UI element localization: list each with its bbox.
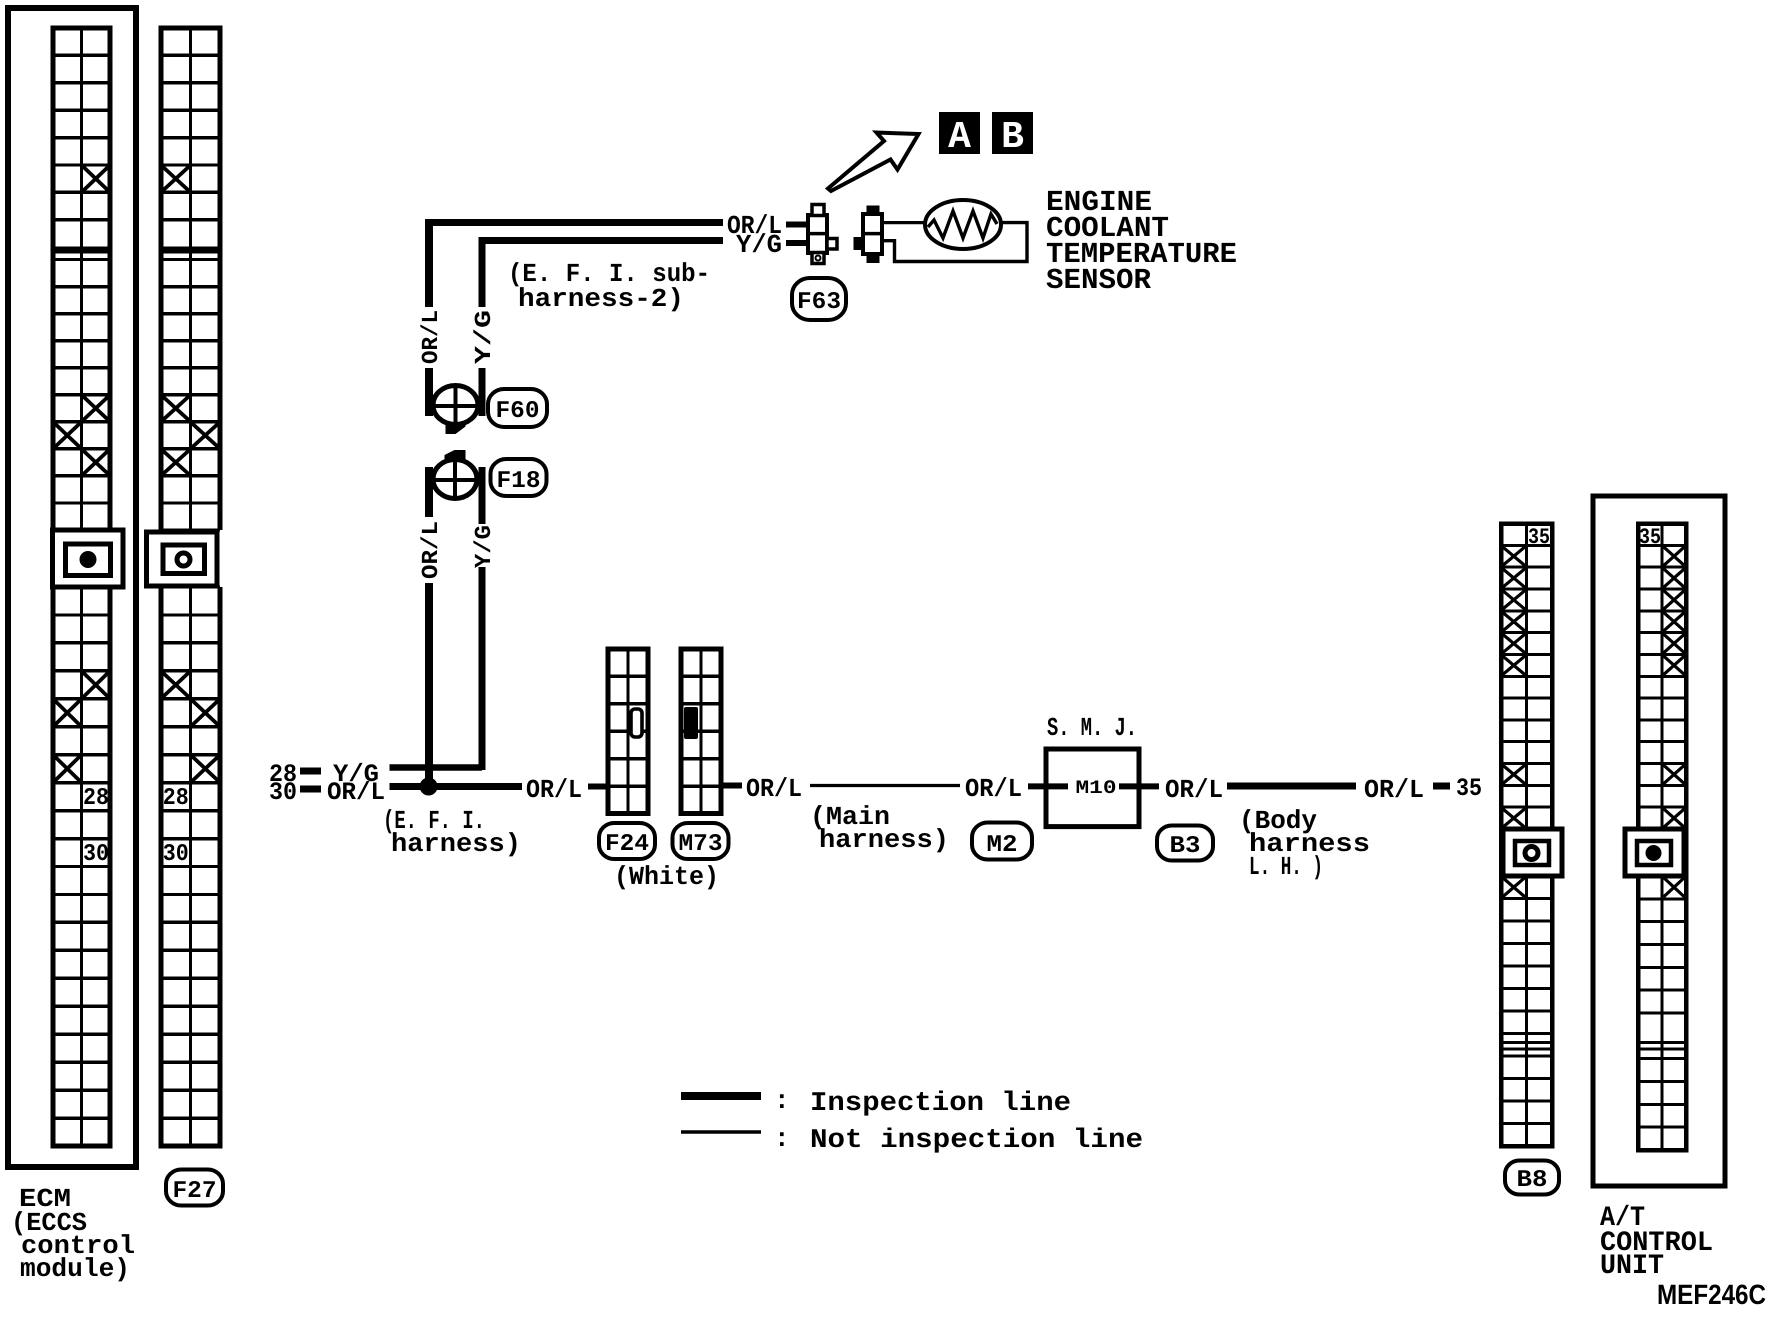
wire OR/L bottom horizontal <box>390 783 523 790</box>
wire stub into SMJ <box>1028 783 1068 789</box>
wire OR/L vertical segment 1a <box>425 219 433 307</box>
svg-text:OR/L: OR/L <box>327 778 385 807</box>
connector strip F24 grid <box>608 649 648 814</box>
ECM strip terminal box with solid dot <box>53 530 124 587</box>
svg-text:F63: F63 <box>797 289 841 316</box>
svg-text::: : <box>774 1124 790 1154</box>
svg-text:28: 28 <box>83 785 109 812</box>
svg-text:30: 30 <box>269 778 297 807</box>
wire stub into F24 <box>588 784 609 790</box>
wire Y/G horizontal top (inspection) <box>479 237 724 244</box>
wire stub out of SMJ <box>1119 783 1159 789</box>
svg-text:module): module) <box>20 1254 130 1284</box>
svg-text:F60: F60 <box>496 398 540 425</box>
A/T control unit outer box <box>1593 496 1725 1186</box>
wire OR/L horizontal top (inspection) <box>426 219 724 226</box>
svg-text:35: 35 <box>1456 774 1482 803</box>
inspection point box A <box>939 112 980 154</box>
connector strip B8 grid <box>1501 524 1552 1147</box>
legend not-inspection line sample <box>681 1130 761 1134</box>
svg-text:OR/L: OR/L <box>1364 775 1424 805</box>
svg-text:UNIT: UNIT <box>1600 1251 1664 1282</box>
svg-text:F24: F24 <box>605 831 649 858</box>
svg-text:MEF246C: MEF246C <box>1657 1279 1766 1310</box>
sensor loop wire <box>882 223 1027 262</box>
pin 28 tick <box>300 768 321 775</box>
connector label F27 <box>166 1170 223 1206</box>
svg-text:35: 35 <box>1639 525 1661 550</box>
S.M.J. junction box <box>1046 749 1139 827</box>
connector strip F27 pins grid <box>159 28 223 1146</box>
A/T terminal box with solid dot <box>1625 829 1684 876</box>
svg-text:30: 30 <box>163 841 189 868</box>
svg-text:F27: F27 <box>173 1178 217 1205</box>
wire main harness (not inspection) <box>810 784 960 787</box>
connector label F24 <box>599 823 655 859</box>
connector label B8 <box>1505 1161 1559 1195</box>
connector label B3 <box>1157 826 1213 861</box>
svg-text:M10: M10 <box>1076 777 1117 799</box>
svg-text:F18: F18 <box>497 468 541 495</box>
svg-text:A: A <box>948 116 971 159</box>
thermistor ellipse <box>925 200 1001 249</box>
connector label M73 <box>673 823 729 859</box>
svg-text:Y/G: Y/G <box>736 230 782 260</box>
svg-text:Not inspection line: Not inspection line <box>810 1126 1143 1156</box>
F24 keyway slot <box>631 709 642 737</box>
connector label F18 <box>491 459 547 496</box>
callout arrow to A/B <box>828 133 919 192</box>
B8 terminal box with ring <box>1503 829 1562 876</box>
svg-text:S. M. J.: S. M. J. <box>1047 713 1137 743</box>
connector strip M73 grid <box>681 649 721 814</box>
wire OR/L vertical segment 2 <box>425 467 433 517</box>
svg-text:harness): harness) <box>391 829 521 859</box>
wire stub out of M73 <box>721 783 742 789</box>
connector F60 circle <box>431 386 480 435</box>
svg-text:B3: B3 <box>1170 833 1201 860</box>
svg-text:OR/L: OR/L <box>1165 775 1223 805</box>
wire OR/L vertical segment 1b <box>425 368 433 416</box>
svg-text:SENSOR: SENSOR <box>1046 264 1152 297</box>
A/T strip X-marked cells <box>1664 547 1685 566</box>
wire Y/G vertical segment 3 <box>479 567 486 770</box>
connector F18 circle <box>431 450 480 499</box>
wire body harness (inspection) <box>1227 783 1356 790</box>
pin 35 tick <box>1433 783 1450 790</box>
wire Y/G vertical segment 1a <box>479 237 486 307</box>
wire stub to sensor connector pin A <box>786 222 809 228</box>
wire Y/G vertical segment 2 <box>479 467 486 524</box>
svg-text:OR/L: OR/L <box>526 775 582 805</box>
svg-text:Y/G: Y/G <box>471 525 497 568</box>
wire Y/G bottom horizontal <box>390 764 483 771</box>
thermistor zigzag element <box>928 211 997 238</box>
F27 strip X-marked cells <box>163 167 190 191</box>
svg-text:(White): (White) <box>614 862 719 892</box>
svg-text::: : <box>774 1086 790 1116</box>
svg-text:28: 28 <box>163 785 189 812</box>
svg-text:OR/L: OR/L <box>418 521 444 579</box>
svg-text:B: B <box>1001 116 1024 159</box>
svg-text:M2: M2 <box>987 832 1018 859</box>
junction dot OR/L <box>420 778 438 796</box>
svg-text:Inspection line: Inspection line <box>810 1089 1071 1119</box>
svg-text:L. H. ): L. H. ) <box>1249 852 1323 882</box>
svg-text:35: 35 <box>1528 525 1550 550</box>
svg-text:30: 30 <box>83 841 109 868</box>
F27 strip terminal box with ring <box>147 532 218 586</box>
svg-text:OR/L: OR/L <box>746 774 802 804</box>
ECM (ECCS control module) outer box <box>8 8 136 1167</box>
connector label F63 <box>792 278 846 320</box>
pin 30 tick <box>300 786 321 793</box>
svg-text:B8: B8 <box>1517 1167 1548 1194</box>
legend inspection line sample <box>681 1092 761 1100</box>
wire Y/G vertical segment 1b <box>479 368 486 416</box>
svg-text:M73: M73 <box>679 831 723 858</box>
svg-text:Y/G: Y/G <box>471 310 497 364</box>
svg-text:OR/L: OR/L <box>418 310 444 364</box>
connector strip A/T grid <box>1638 524 1686 1151</box>
sensor connector (female) <box>854 206 883 264</box>
M73 keyway slot (solid) <box>684 707 698 739</box>
connector strip ECM pins grid <box>51 28 113 1146</box>
wire stub to sensor connector pin B <box>786 240 809 246</box>
connector label M2 <box>972 823 1032 860</box>
B8 strip X-marked cells <box>1503 547 1526 566</box>
wire sensor top <box>882 221 926 224</box>
svg-text:harness): harness) <box>819 825 949 855</box>
connector label F60 <box>488 389 547 427</box>
ECM strip X-marked cells <box>83 167 109 191</box>
sensor harness connector (male) <box>808 205 837 264</box>
wire OR/L vertical segment 3 <box>425 583 433 790</box>
inspection point box B <box>992 112 1033 154</box>
svg-text:OR/L: OR/L <box>965 774 1022 804</box>
svg-text:harness-2): harness-2) <box>518 284 684 314</box>
